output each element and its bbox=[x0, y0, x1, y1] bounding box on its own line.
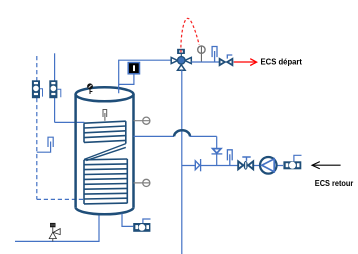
thermometer TH1 (tank upper right) bbox=[134, 117, 150, 124]
valve V3 (ball valve with handle) bbox=[238, 157, 253, 170]
check valve CV2 (rightward) bbox=[195, 159, 200, 171]
svg-text:ECS retour: ECS retour bbox=[315, 178, 354, 188]
wire: dashed sensor line left bbox=[37, 56, 85, 199]
thermometer TH2 (tank lower right) bbox=[134, 179, 150, 186]
label ECS depart bbox=[261, 57, 303, 67]
wire: recirculation pipe to tank with crossing hop bbox=[134, 130, 217, 165]
wire: pipe valve to ECS depart bbox=[191, 61, 233, 63]
wire: ECS retour pipe bbox=[182, 165, 283, 167]
sensor pocket T4 (thermowell on retour) bbox=[227, 150, 232, 166]
meter M2 (vertical counter on solid line) bbox=[49, 80, 61, 98]
wire: main cold vertical pipe bbox=[181, 70, 183, 254]
sensor pocket T3 (thermowell on ECS depart) bbox=[212, 47, 217, 62]
coil lower heat exchanger bbox=[84, 159, 127, 204]
wire: pipe tank top to mixing valve bbox=[119, 60, 171, 93]
thermometer TH3 (after valve) bbox=[198, 46, 205, 62]
storage tank bbox=[76, 87, 134, 214]
wire: tank bottom drain pipe bbox=[15, 216, 99, 242]
controller U1 bbox=[128, 63, 139, 74]
meter M4 (tank energy counter) bbox=[133, 219, 150, 232]
sensor pocket T1 (left thermowell) bbox=[37, 137, 53, 152]
meter M1 (vertical counter on dashed line) bbox=[32, 80, 43, 98]
wire: capillary red dashed bbox=[181, 18, 199, 52]
svg-text:ECS départ: ECS départ bbox=[261, 57, 303, 67]
wire: solid supply line left bbox=[55, 53, 85, 122]
label ECS retour bbox=[315, 178, 354, 188]
safety valve SV1 bbox=[49, 223, 60, 242]
arrow ECS retour (black) bbox=[312, 162, 341, 169]
pump P1 (circulation pump) bbox=[260, 157, 277, 174]
wire: controller connection bbox=[119, 74, 134, 84]
check valve CV1 (downward) bbox=[212, 149, 223, 154]
meter M3 (ECS retour counter) bbox=[283, 155, 301, 169]
wire: pipe to bottom meter bbox=[122, 214, 133, 227]
coil upper heat exchanger bbox=[84, 121, 126, 143]
sensor B1 (probe on tank top) bbox=[88, 84, 93, 94]
valve V2 (isolation valve ECS depart) bbox=[220, 55, 233, 65]
sensor pocket T2 (gray thermowell in tank) bbox=[103, 110, 107, 121]
arrow ECS depart (red) bbox=[234, 59, 257, 66]
3-way mixing valve V1 bbox=[171, 49, 191, 70]
coil connecting diagonal bbox=[84, 144, 126, 161]
